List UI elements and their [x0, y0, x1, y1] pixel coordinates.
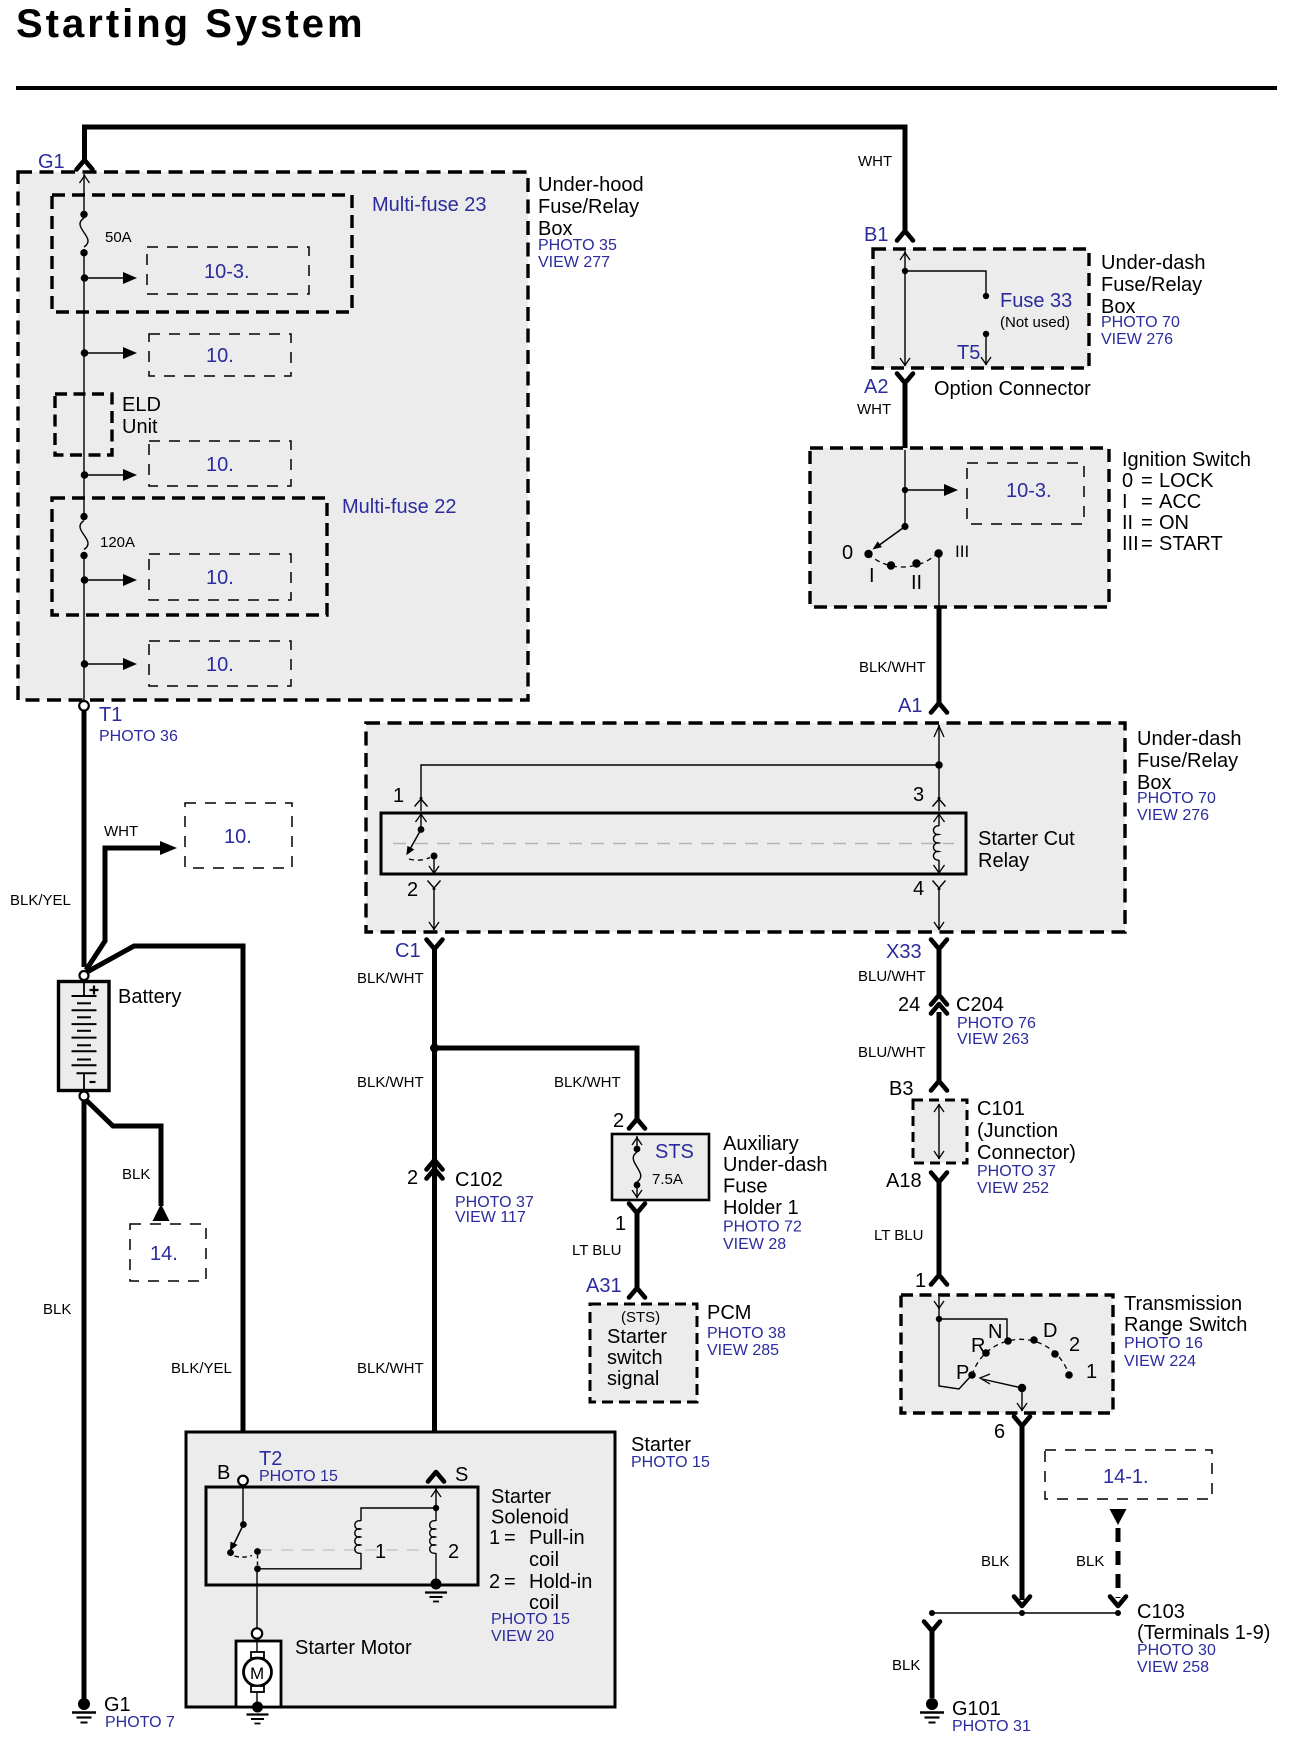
page ref box 10 (WHT)	[185, 803, 292, 868]
svg-text:C101: C101	[977, 1098, 1025, 1120]
multi-fuse 23 box	[52, 195, 352, 312]
svg-text:BLK/YEL: BLK/YEL	[10, 892, 71, 909]
ELD unit box	[55, 394, 112, 455]
fuse 33 (not used) upper pin	[983, 293, 989, 299]
svg-text:PHOTO 76: PHOTO 76	[957, 1015, 1036, 1032]
svg-text:PHOTO 72: PHOTO 72	[723, 1219, 802, 1236]
svg-text:BLK: BLK	[122, 1166, 150, 1183]
svg-text:Fuse 33: Fuse 33	[1000, 290, 1072, 312]
ignition contact 0	[864, 550, 872, 558]
svg-text:BLK: BLK	[1076, 1553, 1104, 1570]
node branch to 10-3	[81, 274, 89, 282]
terminal B (open circle)	[238, 1476, 248, 1486]
relay fixed contact	[409, 858, 430, 861]
wire branch arrow to 10-3	[85, 277, 125, 279]
fuse STS element	[632, 1137, 642, 1145]
svg-text:A1: A1	[898, 695, 922, 717]
svg-text:1: 1	[915, 1270, 926, 1292]
wire coil 2 to ground	[435, 1553, 437, 1580]
wire BLK/WHT ignition to A1	[937, 607, 942, 703]
svg-text:Solenoid: Solenoid	[491, 1507, 569, 1529]
node fuse33 tap	[902, 268, 908, 274]
wire WHT G1-to-B1 top run	[85, 127, 906, 231]
svg-text:S: S	[455, 1464, 468, 1486]
svg-text:24: 24	[898, 994, 920, 1016]
wire LT BLU A18 to TRS pin 1	[937, 1182, 942, 1275]
wire junction to coil 1	[258, 1553, 362, 1569]
svg-text:1: 1	[375, 1541, 386, 1563]
svg-text:BLK: BLK	[981, 1553, 1009, 1570]
motor brush top	[251, 1652, 264, 1658]
svg-text:Starter: Starter	[491, 1486, 551, 1508]
svg-text:switch: switch	[607, 1347, 663, 1369]
terminal T1 (open circle)	[79, 701, 89, 711]
svg-text:=: =	[1141, 470, 1153, 492]
battery minus mark	[90, 1081, 96, 1083]
svg-text:Relay: Relay	[978, 850, 1029, 872]
svg-text:PHOTO 31: PHOTO 31	[952, 1718, 1031, 1735]
svg-text:10.: 10.	[224, 826, 252, 848]
svg-text:(Not used): (Not used)	[1000, 314, 1070, 331]
pin 2 chevron	[428, 881, 441, 890]
page ref box 10 (second)	[149, 334, 291, 376]
svg-text:PHOTO 35: PHOTO 35	[538, 237, 617, 254]
wire branch arrow	[85, 663, 125, 665]
svg-text:I: I	[869, 565, 875, 587]
svg-text:Under-hood: Under-hood	[538, 174, 644, 196]
fuse holder STS box	[612, 1134, 709, 1200]
ground G101	[926, 1698, 938, 1710]
svg-text:=: =	[1141, 533, 1153, 555]
svg-text:Auxiliary: Auxiliary	[723, 1133, 799, 1155]
connector STS pin 2 (male chevron)	[629, 1119, 645, 1129]
solenoid switch pivot	[242, 1487, 244, 1524]
wire BLK dashed from 14-1	[1116, 1528, 1121, 1598]
svg-text:VIEW 276: VIEW 276	[1137, 807, 1209, 824]
svg-text:Ignition Switch: Ignition Switch	[1122, 449, 1251, 471]
wire to fuse 33	[905, 271, 986, 293]
svg-text:T1: T1	[99, 704, 122, 726]
solenoid centerline	[260, 1549, 420, 1551]
wire branch arrow	[85, 474, 125, 476]
wire inside under-dash top box	[904, 251, 906, 366]
arrow up at A1 entry	[934, 725, 944, 737]
connector TRS pin 6 (female chevron)	[1014, 1417, 1030, 1427]
ignition contact arc	[868, 552, 939, 567]
connector S (male chevron)	[428, 1472, 444, 1482]
svg-text:=: =	[1141, 491, 1153, 513]
svg-text:=: =	[1141, 512, 1153, 534]
svg-text:3: 3	[913, 784, 924, 806]
ignition rotor pivot	[901, 523, 908, 530]
starter cut relay box	[381, 813, 966, 874]
connector STS pin 1 (female chevron)	[629, 1204, 645, 1214]
svg-text:VIEW 276: VIEW 276	[1101, 331, 1173, 348]
ignition rotor arm	[878, 527, 905, 547]
svg-text:VIEW 258: VIEW 258	[1137, 1659, 1209, 1676]
wire fixed contact down	[257, 1555, 259, 1565]
svg-text:C103: C103	[1137, 1601, 1185, 1623]
svg-text:START: START	[1159, 533, 1223, 555]
ground G1 bottom	[78, 1698, 90, 1710]
connector C1 (female chevron)	[427, 940, 443, 950]
svg-text:10.: 10.	[206, 345, 234, 367]
TRS contact R	[982, 1349, 990, 1357]
connector C204 (double chevron)	[931, 995, 947, 1014]
connector A18 (female chevron)	[931, 1173, 947, 1183]
svg-text:T2: T2	[259, 1448, 282, 1470]
wire BLK/WHT branch to STS	[435, 1048, 638, 1119]
node relay feed tap	[935, 761, 943, 769]
svg-text:6: 6	[994, 1421, 1005, 1443]
svg-text:(STS): (STS)	[621, 1309, 660, 1326]
svg-text:2: 2	[613, 1110, 624, 1132]
svg-text:1: 1	[615, 1213, 626, 1235]
arrow up at B1 entry	[900, 252, 910, 260]
svg-text:LT BLU: LT BLU	[874, 1227, 923, 1244]
svg-text:VIEW 263: VIEW 263	[957, 1031, 1029, 1048]
battery Battery	[59, 982, 110, 1091]
solenoid fixed contact	[235, 1556, 253, 1558]
svg-text:Starter Motor: Starter Motor	[295, 1637, 412, 1659]
wire LT BLU STS to A31	[635, 1213, 640, 1287]
svg-text:Battery: Battery	[118, 986, 181, 1008]
wire inside ignition switch	[904, 450, 906, 526]
wire fixed contact to pin 2	[433, 856, 435, 874]
svg-text:10-3.: 10-3.	[204, 261, 250, 283]
battery negative terminal	[80, 1092, 89, 1101]
svg-text:4: 4	[913, 878, 924, 900]
node S junction	[433, 1505, 439, 1511]
svg-text:=: =	[504, 1571, 516, 1593]
node solenoid junction	[254, 1565, 261, 1572]
terminal motor (open circle)	[252, 1628, 262, 1638]
svg-text:BLK/WHT: BLK/WHT	[357, 1360, 424, 1377]
page link triangle to 14	[153, 1204, 170, 1221]
svg-text:VIEW 117: VIEW 117	[455, 1209, 526, 1226]
svg-text:Fuse: Fuse	[723, 1176, 767, 1198]
node branch to 10 (bottom)	[81, 660, 89, 668]
svg-text:STS: STS	[655, 1141, 694, 1163]
wire into motor	[256, 1640, 258, 1655]
TRS rotor arm	[1018, 1384, 1026, 1392]
pin 4 chevron	[933, 881, 946, 890]
svg-text:VIEW 277: VIEW 277	[538, 254, 610, 271]
svg-text:BLK: BLK	[43, 1301, 71, 1318]
svg-text:LOCK: LOCK	[1159, 470, 1214, 492]
transmission range switch box	[901, 1295, 1113, 1413]
wire BLU/WHT X33 to C204	[937, 949, 942, 995]
svg-text:BLK/WHT: BLK/WHT	[357, 1074, 424, 1091]
svg-text:T5: T5	[957, 342, 980, 364]
svg-text:M: M	[250, 1664, 264, 1683]
wire S entry	[435, 1487, 437, 1521]
svg-text:BLU/WHT: BLU/WHT	[858, 1044, 926, 1061]
svg-text:C1: C1	[395, 940, 421, 962]
svg-text:ELD: ELD	[122, 394, 161, 416]
svg-text:7.5A: 7.5A	[652, 1171, 683, 1188]
PCM box	[590, 1304, 697, 1402]
node branch to 10 (mf22)	[81, 576, 89, 584]
svg-text:Multi-fuse 22: Multi-fuse 22	[342, 496, 457, 518]
svg-text:=: =	[504, 1527, 516, 1549]
svg-text:B3: B3	[889, 1078, 913, 1100]
page link triangle from 14-1	[1110, 1509, 1127, 1525]
svg-text:P: P	[956, 1362, 969, 1384]
svg-text:Connector): Connector)	[977, 1142, 1076, 1164]
svg-text:WHT: WHT	[104, 823, 138, 840]
svg-text:VIEW 252: VIEW 252	[977, 1180, 1049, 1197]
svg-text:10.: 10.	[206, 654, 234, 676]
relay switch arm	[410, 830, 422, 851]
svg-text:Pull-in: Pull-in	[529, 1527, 585, 1549]
connector TRS pin 1 (male chevron)	[931, 1275, 947, 1285]
ignition switch box	[810, 448, 1109, 607]
svg-text:III: III	[955, 542, 969, 561]
page ref box 10 (mf22)	[149, 554, 291, 600]
wire BLK C103 to G101	[930, 1631, 935, 1698]
node TRS tap	[936, 1316, 942, 1322]
svg-text:2: 2	[448, 1541, 459, 1563]
svg-text:1: 1	[1086, 1361, 1097, 1383]
svg-text:VIEW 285: VIEW 285	[707, 1342, 779, 1359]
svg-text:VIEW 20: VIEW 20	[491, 1628, 554, 1645]
arrow up at G1 entry	[80, 175, 90, 183]
ignition contact III	[934, 549, 942, 557]
pin 3 chevron	[933, 798, 946, 807]
svg-text:WHT: WHT	[858, 153, 892, 170]
svg-text:C102: C102	[455, 1169, 503, 1191]
svg-text:Transmission: Transmission	[1124, 1293, 1242, 1315]
wire III to box edge	[938, 556, 940, 606]
svg-text:Range Switch: Range Switch	[1124, 1314, 1247, 1336]
svg-text:PHOTO 15: PHOTO 15	[491, 1611, 570, 1628]
svg-text:VIEW 28: VIEW 28	[723, 1236, 786, 1253]
svg-text:Starter: Starter	[631, 1434, 691, 1456]
relay switch pivot	[420, 813, 422, 830]
C101 internal arrow	[938, 1104, 940, 1159]
svg-text:G1: G1	[38, 151, 65, 173]
motor brush bottom	[251, 1686, 264, 1692]
svg-text:G101: G101	[952, 1698, 1001, 1720]
wire tap across to pin 1	[421, 765, 939, 811]
wire BLK/YEL T1 to battery	[82, 710, 87, 967]
svg-text:50A: 50A	[105, 229, 132, 246]
node branch to 10 (third)	[81, 471, 89, 479]
node C103 junction dots	[929, 1610, 935, 1616]
svg-text:PHOTO 37: PHOTO 37	[977, 1163, 1056, 1180]
svg-text:Under-dash: Under-dash	[1101, 252, 1206, 274]
page ref box 14-1	[1045, 1450, 1212, 1499]
TRS contact P	[968, 1371, 976, 1379]
title rule	[16, 86, 1277, 90]
wire tap to P contact	[939, 1319, 970, 1389]
svg-text:10.: 10.	[206, 454, 234, 476]
connector chevron to G101 wire	[924, 1622, 940, 1632]
svg-text:BLK/YEL: BLK/YEL	[171, 1360, 232, 1377]
svg-text:I: I	[1122, 491, 1128, 513]
wire BLK pin6 to C103	[1020, 1427, 1025, 1600]
svg-text:C204: C204	[956, 994, 1004, 1016]
TRS contact arc	[972, 1339, 1069, 1375]
solenoid switch arm	[234, 1525, 244, 1546]
svg-text:2: 2	[489, 1571, 500, 1593]
svg-text:coil: coil	[529, 1549, 559, 1571]
coil 2 hold-in	[430, 1521, 436, 1554]
fuse 50A	[80, 211, 87, 218]
node branch to 10 (second)	[81, 349, 89, 357]
svg-text:Starter: Starter	[607, 1326, 667, 1348]
wire A1 entry to relay coil	[938, 725, 940, 811]
connector B1 (male chevron)	[897, 231, 913, 241]
connector C102 (double chevron)	[427, 1160, 443, 1179]
svg-text:(Junction: (Junction	[977, 1120, 1058, 1142]
svg-text:A31: A31	[586, 1275, 622, 1297]
connector G1 (male chevron)	[77, 160, 93, 170]
svg-text:10.: 10.	[206, 567, 234, 589]
page ref box 10-3 (ignition)	[967, 463, 1084, 524]
svg-text:III: III	[1122, 533, 1139, 555]
wire branch arrow	[85, 352, 125, 354]
wire branch arrow to 10-3	[905, 489, 945, 491]
svg-text:B1: B1	[864, 224, 888, 246]
connector C103 chevron (pin6 wire)	[1014, 1597, 1030, 1607]
connector A1 (male chevron)	[931, 703, 947, 713]
svg-text:PHOTO 15: PHOTO 15	[259, 1468, 338, 1485]
wire main bus inside under-hood box	[83, 174, 85, 700]
svg-text:10-3.: 10-3.	[1006, 480, 1052, 502]
svg-text:1: 1	[393, 785, 404, 807]
wire WHT A2 to ignition switch	[903, 384, 908, 449]
page ref box 14	[130, 1224, 206, 1281]
junction connector C101 box	[913, 1100, 967, 1163]
starter motor box	[236, 1641, 281, 1707]
TRS contact N	[1004, 1337, 1012, 1345]
TRS contact D	[1030, 1336, 1038, 1344]
arrow down at A2 exit	[900, 358, 910, 366]
svg-text:A18: A18	[886, 1170, 922, 1192]
svg-text:G1: G1	[104, 1694, 131, 1716]
svg-text:ON: ON	[1159, 512, 1189, 534]
TRS contact 2	[1051, 1350, 1059, 1358]
svg-text:BLK/WHT: BLK/WHT	[859, 659, 926, 676]
motor M circle	[244, 1658, 272, 1686]
ignition contact II	[912, 559, 920, 567]
wire BLK/WHT C1 to starter S	[432, 949, 437, 1470]
pin 1 chevron	[415, 798, 428, 807]
fuse 120A	[80, 513, 87, 520]
fuse 33 (not used) lower pin	[983, 331, 989, 337]
wire rotor to pin 6	[1021, 1388, 1023, 1411]
svg-text:Starting System: Starting System	[16, 2, 366, 46]
svg-text:0: 0	[842, 542, 853, 564]
wire pin 2 to C1	[433, 888, 435, 930]
connector A31 (male chevron)	[629, 1288, 645, 1298]
TRS entry wire	[938, 1297, 940, 1319]
connector C103 chevron (14-1 wire)	[1110, 1597, 1126, 1607]
svg-text:Option Connector: Option Connector	[934, 378, 1091, 400]
svg-text:PHOTO 38: PHOTO 38	[707, 1325, 786, 1342]
svg-text:PHOTO 15: PHOTO 15	[631, 1454, 710, 1471]
wire battery positive to starter B	[87, 946, 243, 1473]
svg-text:BLK: BLK	[892, 1657, 920, 1674]
coil 1 pull-in	[355, 1521, 361, 1554]
svg-text:PHOTO 70: PHOTO 70	[1101, 314, 1180, 331]
svg-text:Unit: Unit	[122, 416, 158, 438]
under-dash fuse/relay box (middle)	[366, 723, 1125, 932]
svg-text:BLK/WHT: BLK/WHT	[554, 1074, 621, 1091]
svg-text:II: II	[1122, 512, 1133, 534]
svg-text:D: D	[1043, 1320, 1057, 1342]
svg-text:WHT: WHT	[857, 401, 891, 418]
svg-text:Hold-in: Hold-in	[529, 1571, 592, 1593]
under-hood fuse/relay box	[18, 172, 528, 700]
connector A2 (female chevron)	[897, 374, 913, 384]
wire pin 4 to X33	[938, 888, 940, 930]
svg-text:0: 0	[1122, 470, 1133, 492]
svg-text:Under-dash: Under-dash	[1137, 728, 1242, 750]
svg-text:1: 1	[489, 1527, 500, 1549]
svg-text:2: 2	[407, 879, 418, 901]
wire BLK branch to 14	[86, 1100, 161, 1206]
wire solenoid to motor	[256, 1568, 258, 1628]
svg-text:Holder 1: Holder 1	[723, 1197, 799, 1219]
battery plus mark	[90, 986, 99, 995]
wire WHT branch from battery positive	[86, 848, 161, 970]
connector X33 (female chevron)	[931, 940, 947, 950]
ground (motor)	[252, 1702, 263, 1713]
wire coil1 top to S line	[361, 1508, 436, 1521]
svg-text:PCM: PCM	[707, 1302, 751, 1324]
wire branch arrow	[85, 579, 125, 581]
page ref box 10-3	[147, 247, 309, 294]
svg-text:PHOTO 16: PHOTO 16	[1124, 1335, 1203, 1352]
svg-text:14-1.: 14-1.	[1103, 1466, 1149, 1488]
svg-text:PHOTO 36: PHOTO 36	[99, 728, 178, 745]
svg-text:N: N	[988, 1321, 1002, 1343]
svg-text:VIEW 224: VIEW 224	[1124, 1353, 1196, 1370]
svg-text:PHOTO 70: PHOTO 70	[1137, 790, 1216, 807]
svg-text:LT BLU: LT BLU	[572, 1242, 621, 1259]
svg-text:II: II	[911, 572, 922, 594]
svg-text:14.: 14.	[150, 1243, 178, 1265]
under-dash fuse/relay box (top)	[873, 249, 1089, 368]
wire C103 junction bus	[932, 1612, 1118, 1614]
node ignition tap	[902, 487, 908, 493]
page ref box 10 (third)	[149, 441, 291, 486]
svg-text:(Terminals 1-9): (Terminals 1-9)	[1137, 1622, 1270, 1644]
svg-text:Under-dash: Under-dash	[723, 1154, 828, 1176]
battery positive terminal	[80, 971, 89, 980]
svg-text:Fuse/Relay: Fuse/Relay	[1137, 750, 1238, 772]
wire T5 drop with arrow	[985, 337, 987, 365]
svg-text:Starter Cut: Starter Cut	[978, 828, 1075, 850]
wire BLU/WHT C204 to B3	[937, 1012, 942, 1080]
node junction to STS branch	[430, 1044, 439, 1053]
svg-text:BLU/WHT: BLU/WHT	[858, 968, 926, 985]
TRS contact 1	[1065, 1371, 1073, 1379]
svg-text:PHOTO 7: PHOTO 7	[105, 1714, 175, 1731]
svg-text:PHOTO 30: PHOTO 30	[1137, 1642, 1216, 1659]
svg-text:Multi-fuse 23: Multi-fuse 23	[372, 194, 487, 216]
wire BLK battery negative to ground G1	[82, 1101, 87, 1699]
wire motor to ground	[256, 1692, 258, 1703]
starter box	[186, 1432, 615, 1707]
wire tap to N contact	[939, 1319, 1007, 1338]
connector B3 (male chevron)	[931, 1081, 947, 1091]
svg-text:signal: signal	[607, 1368, 659, 1390]
svg-text:2: 2	[1069, 1334, 1080, 1356]
